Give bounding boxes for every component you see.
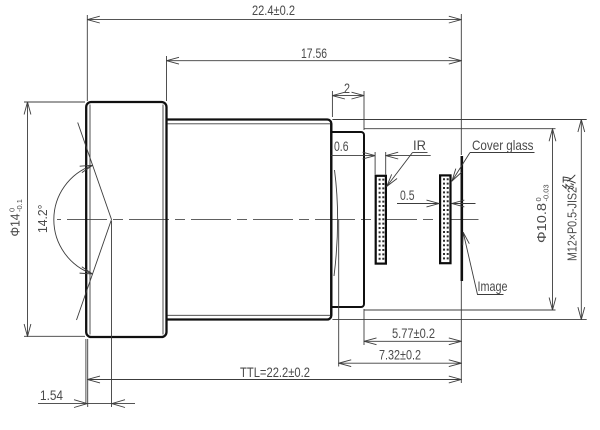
kanji kyuu glyph bbox=[563, 175, 576, 189]
centerline bbox=[57, 219, 479, 221]
dim 5.77 line bbox=[364, 340, 461, 342]
M12 ext top bbox=[332, 119, 586, 121]
ext phi14 bottom bbox=[24, 335, 85, 337]
cover glass bbox=[440, 175, 450, 263]
ext lens vertex front bbox=[85, 339, 87, 403]
dim 2 line bbox=[332, 95, 364, 97]
dim phi10.8 vertical bbox=[552, 129, 554, 310]
IR leader bbox=[387, 153, 413, 187]
dim 0.6 right line with arrow bbox=[386, 155, 431, 157]
dim TTL line bbox=[88, 379, 462, 381]
svg-text:IR: IR bbox=[413, 137, 426, 153]
ext phi14 top bbox=[24, 101, 85, 103]
Image leader bbox=[463, 232, 503, 294]
text 14.2deg rotated bbox=[35, 205, 50, 234]
IR label underline bbox=[413, 152, 428, 154]
text phi14 rotated bbox=[8, 199, 25, 236]
angle arc 14.2deg bbox=[54, 165, 93, 274]
barrel rear end face bbox=[330, 124, 332, 316]
front element cone lower line bbox=[77, 220, 112, 321]
ext 7.32 left (rear vertex) bbox=[338, 220, 340, 367]
dim 0.5 right line with arrow bbox=[452, 203, 476, 205]
ext line 2 left bbox=[331, 91, 333, 117]
dim 17.56 line bbox=[167, 60, 462, 62]
Cover glass leader bbox=[452, 153, 470, 182]
ext line 2 right bbox=[363, 91, 365, 130]
svg-text:2: 2 bbox=[344, 80, 350, 96]
rear cylinder section bbox=[332, 132, 364, 307]
svg-text:0.6: 0.6 bbox=[334, 138, 349, 154]
ext TTL left / cap face bbox=[87, 339, 89, 407]
ext 5.77 left bbox=[363, 309, 365, 345]
svg-text:14.2°: 14.2° bbox=[35, 205, 50, 234]
cap front inner edge bbox=[89, 105, 91, 335]
svg-text:Φ10.8: Φ10.8 bbox=[534, 203, 549, 243]
svg-text:17.56: 17.56 bbox=[301, 45, 327, 61]
svg-text:M12×P0.5-JIS2: M12×P0.5-JIS2 bbox=[565, 187, 580, 261]
dim 22.4 line bbox=[87, 19, 461, 21]
dim 1.54 line bbox=[38, 403, 135, 405]
svg-text:-0.1: -0.1 bbox=[15, 199, 24, 212]
ext 0.6 faces bbox=[374, 152, 376, 175]
dim 7.32 line bbox=[339, 362, 462, 364]
Cover glass underline bbox=[470, 152, 535, 154]
svg-text:5.77±0.2: 5.77±0.2 bbox=[392, 325, 435, 341]
svg-text:Image: Image bbox=[478, 278, 508, 294]
thread root line top bbox=[168, 123, 331, 125]
phi10.8 ext top bbox=[364, 128, 556, 130]
1.54 arrow right (outside pointing left) bbox=[112, 400, 125, 408]
ext line 17.56 left bbox=[166, 56, 168, 101]
text phi10.8 rotated bbox=[534, 184, 551, 243]
rear lens element arc bbox=[334, 170, 338, 276]
thread root line bottom bbox=[168, 314, 331, 316]
ext line 22.4 left bbox=[86, 15, 88, 101]
dim 0.5 left line with arrow bbox=[397, 203, 439, 205]
cap rear inner edge bbox=[162, 105, 164, 335]
svg-text:TTL=22.2±0.2: TTL=22.2±0.2 bbox=[240, 364, 310, 380]
ext 1.54 right / apex bbox=[111, 221, 113, 407]
phi10.8 ext bottom bbox=[364, 309, 556, 311]
text M12 thread rotated bbox=[565, 187, 580, 261]
dim M12 vertical bbox=[580, 120, 582, 320]
svg-text:0.5: 0.5 bbox=[400, 187, 415, 203]
IR filter bbox=[376, 176, 386, 264]
1.54 arrow left (outside pointing right) bbox=[74, 400, 87, 408]
lens cap body bbox=[86, 102, 166, 337]
front element cone upper line bbox=[78, 123, 112, 220]
dim phi14 vertical bbox=[27, 102, 29, 337]
image plane line bbox=[460, 156, 463, 281]
svg-text:-0.03: -0.03 bbox=[542, 184, 551, 201]
M12 ext bottom bbox=[332, 319, 586, 321]
dim 0.6 left line with arrow bbox=[331, 155, 375, 157]
ext image vertical bottom bbox=[460, 281, 462, 383]
barrel M12 section bbox=[167, 120, 332, 320]
svg-text:Φ14: Φ14 bbox=[9, 213, 23, 236]
svg-text:1.54: 1.54 bbox=[40, 387, 63, 403]
ext line image vertical top bbox=[460, 14, 462, 155]
svg-text:22.4±0.2: 22.4±0.2 bbox=[252, 2, 295, 18]
svg-text:7.32±0.2: 7.32±0.2 bbox=[379, 347, 421, 363]
svg-text:Cover glass: Cover glass bbox=[472, 137, 534, 153]
